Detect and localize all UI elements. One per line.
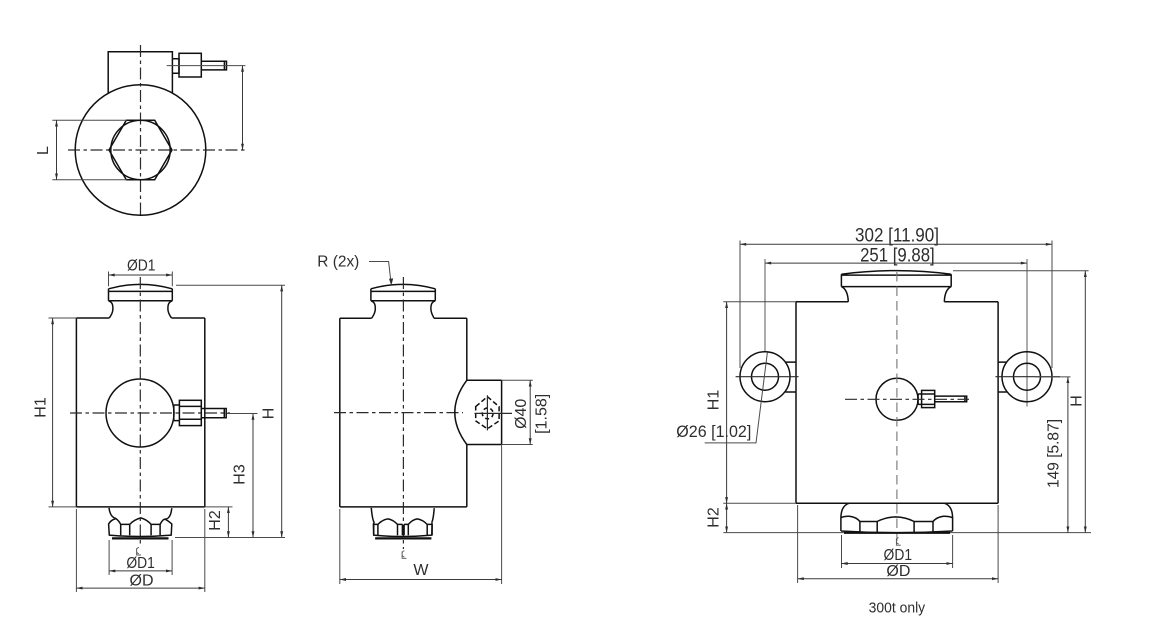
top view connector boss — [108, 52, 172, 94]
top view hex nut — [109, 120, 172, 179]
dimension H extension line right view — [953, 270, 1089, 272]
front hex nut outline — [109, 518, 172, 537]
svg-text:H1: H1 — [33, 397, 50, 418]
300t hex nut outline — [841, 517, 953, 533]
300t center circle — [876, 378, 918, 420]
dimension OD1 bottom extension lines — [109, 540, 172, 575]
svg-text:ØD1: ØD1 — [127, 257, 156, 274]
300t hex nut facets — [860, 522, 933, 533]
side horizontal centerline — [334, 412, 463, 414]
leader D26 — [705, 352, 768, 443]
top view vertical centerline — [140, 45, 142, 218]
side hex nut facets — [374, 524, 432, 535]
svg-text:H2: H2 — [207, 510, 224, 531]
side centerline mark — [402, 551, 407, 559]
svg-text:149 [5.87]: 149 [5.87] — [1046, 419, 1063, 488]
dimension H extension line top — [176, 284, 285, 286]
front vertical centerline — [139, 277, 141, 546]
svg-text:Ø40: Ø40 — [513, 399, 530, 429]
right ear hole — [1014, 363, 1041, 390]
300t vertical centerline — [896, 272, 898, 541]
dimension 149 line — [1067, 377, 1069, 533]
top view horizontal centerline — [68, 149, 245, 151]
dimension H2 line right view — [726, 503, 728, 532]
300t connector neck — [918, 394, 922, 404]
front body outline — [76, 318, 204, 507]
svg-text:ØD1: ØD1 — [884, 547, 913, 564]
300t body outline — [796, 302, 998, 504]
300t centerline mark — [896, 538, 901, 546]
side load button cap — [371, 284, 435, 318]
front load button cap — [109, 284, 173, 318]
300t connector body — [922, 390, 935, 407]
dimension 302 line — [740, 243, 1052, 245]
dimension H1 line — [52, 318, 54, 507]
dimension OD extension lines — [76, 509, 204, 592]
svg-text:H2: H2 — [706, 507, 723, 528]
300t cap — [841, 271, 951, 302]
side hex nut fillets — [371, 508, 434, 523]
ear brackets — [785, 362, 1006, 392]
bottom long extension line right view — [723, 532, 1091, 534]
side hex nut face arcs — [378, 519, 427, 525]
svg-text:ØD1: ØD1 — [126, 555, 155, 572]
right ear outer circle — [1002, 352, 1052, 402]
dimension H1 extension lines right view — [723, 302, 796, 504]
300t horizontal centerline — [845, 398, 969, 400]
side hex nut outline — [373, 523, 432, 537]
side body outline — [340, 318, 467, 507]
bottom shared extension line — [175, 537, 285, 539]
300t connector pin — [935, 396, 967, 402]
top view cable gland neck — [172, 59, 179, 73]
front hex nut fillets — [109, 508, 172, 518]
dimension H2 line — [227, 507, 229, 538]
front horizontal centerline — [70, 412, 230, 414]
ear horizontal centerlines — [736, 376, 1060, 378]
dimension H line — [281, 285, 283, 537]
left ear outer circle — [740, 352, 790, 402]
dimension H2 extension line — [205, 506, 233, 508]
front center bore circle — [106, 379, 174, 447]
svg-text:H: H — [261, 408, 278, 420]
side boss — [455, 380, 502, 444]
dimension D40 line — [529, 380, 531, 444]
dimension 251 line — [765, 262, 1027, 264]
svg-text:R (2x): R (2x) — [317, 254, 359, 271]
front connector body lines — [179, 406, 201, 419]
dimension OD1 top line — [109, 274, 173, 276]
dimension H3 line — [252, 414, 254, 538]
svg-text:L: L — [35, 146, 52, 155]
top view vertical dimension line — [242, 66, 244, 150]
svg-text:H: H — [1069, 395, 1086, 407]
boss hex connector hidden — [476, 397, 499, 429]
front hex nut face arcs — [116, 518, 165, 525]
leader arrow R — [389, 278, 393, 285]
top view body circle — [75, 85, 206, 216]
300t hex nut fillets — [841, 503, 953, 517]
svg-text:300t only: 300t only — [869, 601, 926, 617]
300t hex nut face arcs — [841, 516, 953, 521]
front connector neck — [174, 405, 180, 421]
dimension L extension lines — [52, 120, 127, 179]
leader for R — [369, 262, 391, 284]
dimension OD1 extension lines right view — [842, 535, 953, 568]
dimension H line right view — [1084, 271, 1086, 533]
side vertical centerline — [402, 277, 404, 549]
top view hex inscribed circle — [111, 120, 170, 179]
svg-text:302 [11.90]: 302 [11.90] — [855, 225, 939, 246]
ear vertical centerlines — [765, 259, 1027, 407]
svg-text:[1.58]: [1.58] — [534, 394, 551, 434]
front centerline mark — [136, 548, 141, 556]
svg-text:H1: H1 — [706, 390, 723, 411]
dimension OD extension lines right view — [798, 505, 999, 583]
svg-text:H3: H3 — [232, 464, 249, 485]
front extension to H3 — [227, 413, 258, 415]
top view extension line to pin — [167, 65, 246, 67]
dimension H1 extension lines — [49, 318, 77, 507]
boss hex centerlines — [475, 395, 513, 430]
dimension OD line — [76, 587, 204, 589]
dimension L line — [56, 120, 58, 179]
dimension W line — [340, 579, 502, 581]
dimension OD1 top extension lines — [109, 272, 173, 287]
svg-text:ØD: ØD — [130, 572, 154, 589]
dimension OD line right view — [798, 578, 999, 580]
left ear hole — [752, 363, 779, 390]
front hex nut facets — [121, 524, 160, 535]
front connector pin — [201, 409, 226, 418]
dimension OD1 line right view — [842, 563, 953, 565]
dimension 149 extension line — [1035, 376, 1071, 378]
dimension W extension lines — [340, 445, 502, 585]
dimension OD1 bottom line — [109, 570, 172, 572]
side hex nut bottom edge — [375, 537, 431, 539]
top view cable gland body — [179, 53, 201, 77]
svg-text:Ø26 [1.02]: Ø26 [1.02] — [676, 422, 751, 441]
300t connector body lines — [922, 394, 935, 404]
dimension D40 extension lines — [502, 380, 533, 444]
top view connector pin — [201, 61, 226, 70]
300t hex nut bottom edge — [844, 532, 950, 534]
svg-text:ØD: ØD — [886, 563, 910, 580]
front connector body — [179, 400, 201, 425]
dimension 302 extension lines — [740, 241, 1052, 369]
svg-text:W: W — [413, 562, 429, 579]
dimension H1 line right view — [726, 302, 728, 504]
front hex nut bottom edge — [112, 537, 169, 539]
boss hex inner circle hidden — [482, 408, 493, 419]
